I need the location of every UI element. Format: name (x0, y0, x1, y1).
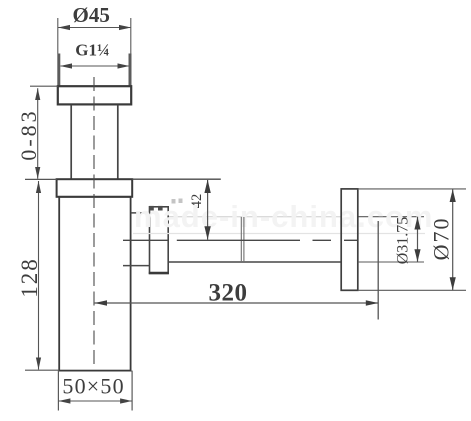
dimension line 0-83 (37, 88, 39, 179)
body top nut (57, 179, 133, 197)
pipe centerline dash 2 (177, 239, 300, 241)
pipe collar line 2 (243, 217, 245, 262)
top flange plate (58, 86, 131, 104)
vertical centerline (93, 77, 95, 369)
dimension line D45 (58, 27, 131, 29)
outlet pipe bottom edge (168, 261, 341, 263)
dimension line G1-1/4 (61, 65, 130, 67)
watermark underline (133, 233, 425, 235)
extension line right of D45 (130, 18, 132, 54)
extension line bottom right (131, 371, 133, 411)
svg-text:Ø31.75: Ø31.75 (395, 217, 412, 265)
svg-text:320: 320 (209, 280, 248, 307)
svg-text:50×50: 50×50 (62, 374, 124, 399)
svg-text:made-in-china.com: made-in-china.com (134, 199, 434, 234)
trap body (59, 197, 130, 371)
outlet nut (150, 207, 169, 274)
dimension line D70 (452, 189, 454, 290)
extension line flange bottom (358, 289, 466, 291)
watermark text (134, 199, 434, 234)
extension line pipe bottom right (358, 261, 424, 263)
dimension line 50x50 (58, 400, 132, 402)
outlet stub bottom (123, 265, 150, 267)
extension line for dim 42 (132, 178, 221, 180)
svg-text:Ø45: Ø45 (73, 3, 110, 27)
svg-text:128: 128 (17, 257, 42, 298)
pipe collar line 1 (240, 217, 242, 262)
nut top chamfer mark left (149, 206, 154, 211)
extension tick top left (30, 85, 58, 87)
extension line pipe top right (358, 216, 424, 218)
outlet nut bottom edge (149, 272, 169, 275)
svg-text:G1¼: G1¼ (75, 41, 109, 60)
dimension line 128 (38, 181, 40, 370)
extension tick bottom left (25, 369, 59, 371)
inlet tube left wall (70, 105, 72, 179)
svg-text:0-83: 0-83 (16, 108, 41, 160)
nut top chamfer mark right (158, 206, 163, 211)
extension line pipe end (377, 221, 379, 320)
extension line left of D45 (57, 18, 59, 54)
extension tick mid left (25, 178, 57, 180)
flange cup right wall (129, 54, 132, 87)
dimension line 42 (207, 180, 209, 240)
pipe centerline dash 3 (313, 239, 332, 241)
inlet tube right wall (117, 105, 119, 179)
watermark dots (172, 199, 176, 204)
extension line flange top (358, 188, 466, 190)
extension line bottom left (57, 371, 59, 411)
flange cup left wall (57, 54, 60, 87)
outlet pipe top edge (168, 216, 341, 218)
pipe centerline dash 1 (123, 239, 169, 241)
dimension line D31.75 (417, 217, 419, 262)
dimension line 320 (95, 302, 379, 304)
svg-text:Ø70: Ø70 (429, 216, 454, 260)
pipe centerline dash 4 (344, 239, 358, 241)
wall flange (341, 189, 358, 290)
outlet stub top (131, 212, 150, 214)
